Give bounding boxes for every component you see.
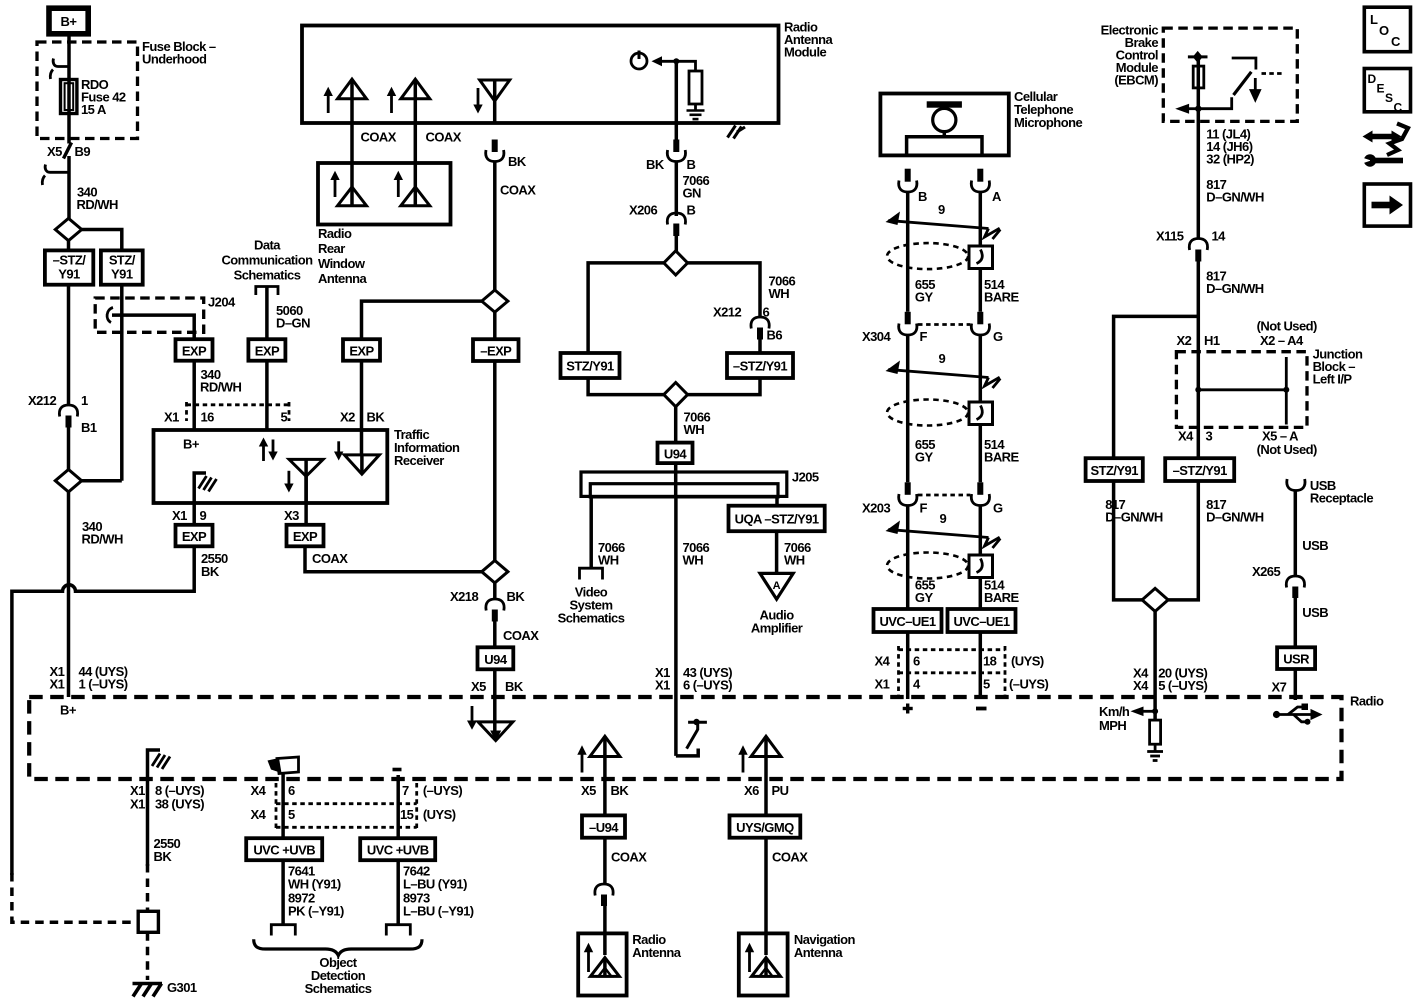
EBCM wire vertical [1197,57,1201,239]
svg-text:PK (–Y91): PK (–Y91) [288,904,344,919]
antenna symbol module 1 [324,79,367,113]
wire 5060 D-GN [265,287,269,340]
svg-text:Y91: Y91 [58,267,80,282]
wire to UYS/GMQ [764,779,768,815]
svg-text:(–UYS): (–UYS) [423,783,463,798]
antenna glyph radio antenna [584,943,620,977]
wire branch right from S1 [82,230,122,251]
splice diamond coax tap 2 [482,561,508,583]
svg-text:B+: B+ [61,14,78,29]
svg-text:U94: U94 [484,652,508,667]
svg-text:B6: B6 [767,328,783,343]
svg-text:WH: WH [684,422,705,437]
svg-text:9: 9 [940,511,947,526]
icon route wrench [1361,124,1409,167]
svg-text:Antenna: Antenna [794,945,843,960]
RPO box STZ/Y91 [101,250,143,284]
wire J204 to EXP [112,315,194,339]
svg-text:BK: BK [507,589,526,604]
resistor module [689,71,702,104]
loop rejoin right [688,378,760,395]
wire camera feed left [281,774,285,839]
svg-text:D–GN/WH: D–GN/WH [1206,190,1264,205]
svg-text:–U94: –U94 [589,820,619,835]
power symbol in module [631,51,647,70]
RPO box -STZ/Y91 loop [727,353,793,378]
label 5060 D-GN [276,303,310,331]
RPO box EXP 4 [176,525,213,547]
wire U94 into radio [493,669,497,740]
RPO box -STZ/Y91 [45,250,93,284]
svg-text:G301: G301 [167,980,197,995]
svg-text:L–BU (Y91): L–BU (Y91) [403,877,467,892]
svg-text:C: C [1394,101,1403,115]
label 817 D-GN/WH [1206,177,1264,205]
wire EXP3 to traffic box [360,361,364,455]
svg-text:Amplifier: Amplifier [751,621,803,636]
mic inline connector A [971,169,989,192]
svg-text:7: 7 [402,783,409,798]
labels 817 under boxes [1105,497,1264,525]
svg-text:X1: X1 [164,410,179,425]
svg-text:PU: PU [772,783,789,798]
splice diamond S2 [55,470,81,492]
RPO box EXP 1 [176,339,213,361]
svg-text:UVC +UVB: UVC +UVB [367,843,429,858]
wire USR to radio [1294,669,1298,700]
wire S5 to radio [1153,611,1157,720]
EBCM junction dot [1195,106,1201,112]
label 7066 WH [684,410,711,438]
svg-text:COAX: COAX [361,130,397,145]
svg-text:STZ/: STZ/ [109,253,136,268]
splice diamond coax tap [482,290,508,312]
svg-text:Radio: Radio [318,226,352,241]
node minus object [393,768,402,772]
connector X304 G [971,312,989,335]
svg-text:RD/WH: RD/WH [77,197,118,212]
svg-text:6 (–UYS): 6 (–UYS) [683,678,732,693]
antenna symbol module 2 [387,79,430,113]
wire B to radio [906,632,910,699]
fuse RDO 42 [61,80,77,114]
svg-text:D: D [1368,72,1377,86]
svg-text:X115: X115 [1156,229,1184,244]
splice diamond S4 [664,383,688,407]
label radio rear window antenna [318,226,367,286]
label EBCM [1101,23,1159,88]
svg-text:BK: BK [154,849,173,864]
svg-text:UQA –STZ/Y91: UQA –STZ/Y91 [735,512,819,527]
svg-text:Data: Data [254,238,281,253]
antenna select switch in radio [676,719,707,756]
antenna symbol traffic 2 [334,441,379,474]
label object detection schematics [305,955,372,996]
svg-text:EXP: EXP [349,344,374,359]
twisted pair symbol 2 [886,351,1001,388]
wire coax 1 module to glass [350,79,354,206]
antenna symbol traffic 1 [284,459,323,503]
svg-text:D–GN/WH: D–GN/WH [1206,510,1264,525]
svg-text:STZ/Y91: STZ/Y91 [1090,463,1138,478]
svg-text:X3: X3 [284,508,299,523]
wire B+ vertical [67,34,71,144]
svg-text:15: 15 [400,807,414,822]
svg-text:X4: X4 [251,807,267,822]
wire STZ rejoin at S2 [82,479,122,483]
twisted pair symbol 3 [886,511,1001,548]
svg-text:Underhood: Underhood [142,52,207,67]
labels 655 GY 514 BARE s1 [915,277,1020,305]
svg-text:S: S [1385,91,1393,105]
svg-text:USB: USB [1302,605,1328,620]
svg-text:WH: WH [769,286,790,301]
label 2550 BK lower [154,836,181,864]
svg-text:Antenna: Antenna [632,945,681,960]
connector rows X4 object [276,783,417,830]
radio antenna box [578,933,626,995]
label BK COAX [500,154,536,198]
kmh mph output arrow [1099,704,1158,733]
loop left branch [588,263,664,353]
svg-text:Schematics: Schematics [558,611,625,626]
splice diamond S5 [1142,588,1168,611]
svg-text:Receiver: Receiver [394,453,444,468]
labels X5 BK bottom [581,783,629,798]
wire B segment 2 [906,335,910,482]
radio dashed box [29,697,1341,779]
RPO box -U94 [582,815,625,837]
labels 655 GY 514 BARE s3 [915,578,1020,606]
svg-text:6: 6 [913,654,920,669]
svg-text:X1: X1 [655,678,670,693]
wire UYS/GMQ to nav box [764,838,768,955]
wire EXP2 to traffic box [265,361,269,430]
svg-text:EXP: EXP [255,344,280,359]
svg-text:B+: B+ [183,437,200,452]
labels X4 3 X5-A [1178,429,1317,458]
shield ellipse 3 [887,553,968,579]
wire 2550 BK down and left with hop [12,546,194,875]
svg-text:G: G [993,501,1003,516]
cellular telephone microphone box [880,94,1008,156]
labels X4 20 5 [1133,666,1207,694]
microphone symbol [907,101,982,155]
wire B segment 3 [906,506,910,610]
svg-text:Left I/P: Left I/P [1313,372,1353,387]
RPO box EXP 2 [248,339,285,361]
label 2550 BK [201,551,228,579]
svg-text:14: 14 [1212,229,1227,244]
svg-text:16: 16 [201,410,215,425]
svg-text:O: O [1379,23,1389,38]
navigation antenna feed glyph [738,736,781,779]
wire J205 left drop [589,497,593,568]
svg-text:Antenna: Antenna [318,271,367,286]
svg-text:X2 – A4: X2 – A4 [1260,333,1304,348]
svg-text:F: F [920,501,928,516]
label traffic information receiver [394,427,460,468]
svg-text:GN: GN [683,186,702,201]
labels BK B 7066 GN [646,157,710,201]
wire traffic to EXP4 [192,503,196,525]
svg-text:EXP: EXP [182,344,207,359]
svg-text:X203: X203 [862,501,890,516]
svg-text:C: C [1391,34,1401,49]
svg-text:F: F [920,329,928,344]
svg-text:BK: BK [508,154,527,169]
label 7066 WH right branch [769,274,796,302]
labels X1 43 6 [655,665,732,693]
wire to -U94 [603,779,607,815]
svg-text:1 (–UYS): 1 (–UYS) [79,677,128,692]
junction bus J205 [581,470,819,497]
wire J205 middle drop [674,497,678,756]
svg-text:A: A [773,580,781,592]
wire UQA to amp [775,531,779,573]
labels X4 6 7 [251,783,463,798]
svg-text:X265: X265 [1252,564,1280,579]
junction block internal link [1195,357,1289,425]
USB trident symbol [1273,704,1323,725]
wire power branch to resistor [676,61,695,71]
labels X203 F G [862,501,1003,516]
svg-text:X212: X212 [28,393,56,408]
svg-text:B1: B1 [81,420,97,435]
shield ellipse 1 [887,243,968,269]
svg-text:(UYS): (UYS) [1011,654,1044,669]
shield drain box 3 [969,555,993,578]
RPO box UVC-UE1 left [874,609,942,632]
wire X212 to -STZ box [758,340,762,354]
svg-text:Communication: Communication [221,253,313,268]
svg-text:X5: X5 [47,144,62,159]
svg-text:5: 5 [983,677,990,692]
wire below X212 [67,428,71,470]
RPO box UVC+UVB left [246,838,322,860]
svg-text:J205: J205 [792,470,819,485]
off-page bracket object left [271,925,295,936]
svg-text:Module: Module [784,45,827,60]
node minus [976,707,987,711]
svg-text:X4: X4 [1133,678,1149,693]
RPO box -STZ/Y91 right [1165,458,1234,481]
svg-text:X1: X1 [875,677,890,692]
RPO box U94 [658,443,693,464]
dashed ground run far left [12,873,135,922]
dashed connector link X203 [918,494,970,497]
label 340 RD/WH at EXP1 [200,367,241,395]
label fuse block [142,39,216,67]
label 340 RD/WH [77,185,118,213]
svg-text:(Not Used): (Not Used) [1257,319,1317,334]
brace object detection [254,939,422,955]
svg-text:38 (UYS): 38 (UYS) [155,797,204,812]
junction dot power [673,58,679,64]
wire tap to -EXP [493,312,497,339]
svg-text:BK: BK [611,783,630,798]
label 340 RD/WH lower [82,519,123,547]
shield ellipse 2 [887,400,968,426]
labels X1 4 5 -UYS [875,677,1049,692]
wire X206 to splice [675,236,679,251]
mic inline connector B [899,169,917,192]
svg-text:X212: X212 [713,305,741,320]
label video system schematics [558,585,625,626]
svg-text:X6: X6 [744,783,759,798]
wire -STZ down right [1168,481,1198,600]
antenna symbol module 3 down [473,80,509,123]
wire mic A segment [979,192,983,312]
svg-text:6: 6 [288,783,295,798]
labels 11 14 32 [1206,127,1254,167]
svg-text:X1: X1 [130,797,145,812]
svg-text:X1: X1 [50,677,65,692]
connector X265 [1252,564,1305,598]
navigation antenna box [739,933,788,995]
label navigation antenna [794,932,856,960]
svg-text:X4: X4 [875,654,891,669]
svg-text:(Not Used): (Not Used) [1257,442,1317,457]
svg-text:BK: BK [367,410,386,425]
USB receptacle connector [1287,478,1374,506]
svg-text:X4: X4 [1178,429,1194,444]
svg-text:9: 9 [938,202,945,217]
svg-text:STZ/Y91: STZ/Y91 [566,359,614,374]
svg-text:9: 9 [939,351,946,366]
labels X4 5 15 [251,807,456,822]
svg-text:RD/WH: RD/WH [82,532,123,547]
icon arrow box [1364,184,1410,226]
svg-text:EXP: EXP [182,529,207,544]
svg-text:WH: WH [598,553,619,568]
wire to X206 [675,162,679,217]
connector X218 [450,589,525,622]
RPO box USR [1277,647,1315,669]
svg-text:Schematics: Schematics [234,268,301,283]
svg-text:WH (Y91): WH (Y91) [288,877,341,892]
wire left from S1 [67,241,71,251]
svg-text:WH: WH [683,553,704,568]
inline connector module BK [667,140,685,162]
svg-text:GY: GY [915,290,934,305]
resistor kmh [1150,720,1161,744]
svg-text:X1: X1 [172,508,187,523]
fuse block terminal hook top [50,59,69,80]
wire coax down to tap [493,162,497,291]
svg-text:BARE: BARE [984,590,1020,605]
svg-text:Microphone: Microphone [1014,115,1082,130]
RPO box STZ/Y91 right [1086,458,1143,481]
svg-text:X4: X4 [251,783,267,798]
svg-text:UVC–UE1: UVC–UE1 [953,614,1009,629]
svg-text:Window: Window [318,256,366,271]
svg-text:Y91: Y91 [111,267,133,282]
svg-text:5 (–UYS): 5 (–UYS) [1158,678,1207,693]
svg-text:Receptacle: Receptacle [1310,491,1373,506]
J204 terminal hook [107,308,113,323]
wire S4 to U94 [674,407,678,443]
RPO box UVC+UVB right [360,838,435,860]
svg-text:B: B [918,189,927,204]
audio amplifier triangle [760,573,793,599]
svg-text:UVC +UVB: UVC +UVB [253,843,315,858]
shield drain box 2 [969,402,993,425]
svg-text:Radio: Radio [1350,694,1384,709]
svg-text:H1: H1 [1204,333,1220,348]
svg-text:X5: X5 [471,679,486,694]
ground symbol inside traffic box [194,473,216,503]
ground kmh [1147,744,1163,760]
svg-text:U94: U94 [664,447,688,462]
radio antenna module box [302,26,779,124]
svg-text:GY: GY [915,450,934,465]
labels X1 9 X3 [172,508,299,523]
radio coax input antenna [467,706,513,742]
label audio amplifier [751,608,803,636]
svg-text:Schematics: Schematics [305,981,372,996]
label data communication schematics [221,238,313,283]
svg-text:BARE: BARE [984,290,1020,305]
wire splice to G301 [146,932,150,980]
fuse block underhood dashed box [37,42,138,139]
RPO box UYS/GMQ [730,815,801,837]
connector rows X4 X1 dashed [899,646,1006,697]
svg-text:X5: X5 [581,783,596,798]
svg-text:15 A: 15 A [81,102,107,117]
wire -EXP to lower tap [493,361,497,561]
junction block left IP dashed box [1176,352,1307,428]
svg-text:COAX: COAX [312,551,348,566]
splice diamond S3 [664,251,688,275]
svg-text:X2: X2 [340,410,355,425]
junction J204 dashed box [95,298,204,332]
svg-text:–STZ/Y91: –STZ/Y91 [1173,463,1227,478]
ground G301 [133,980,197,997]
labels X4 6 18 UYS [875,654,1044,669]
wire -STZ down to X212 [67,285,71,406]
labels X1 8 38 [130,783,204,812]
RPO box -EXP [473,339,519,361]
wire UVC right down [396,860,400,924]
ground wire from radio to splice [146,779,150,866]
svg-text:BK: BK [505,679,524,694]
svg-text:X2: X2 [1177,333,1192,348]
battery feed B+ [49,8,88,34]
radio rear window antenna box [318,163,451,225]
loop rejoin left [588,378,664,395]
svg-text:–STZ/Y91: –STZ/Y91 [733,359,787,374]
wire X115 down [1197,262,1201,459]
splice box S301 [138,911,158,932]
wire A segment 3 [979,506,983,610]
labels X304 F G [862,329,1003,344]
RPO box UQA -STZ/Y91 [729,506,825,532]
label radio antenna [632,932,681,960]
wire X218 to U94 [493,583,497,599]
svg-text:18: 18 [983,654,997,669]
ground under resistor [687,104,705,119]
svg-text:COAX: COAX [426,130,462,145]
wire BK from module [675,61,679,140]
labels 655 GY 514 BARE s2 [915,437,1020,465]
RPO box U94 coax [478,647,514,669]
labels 7642 L-BU 8973 [403,864,474,919]
wire A segment 2 [979,335,983,482]
svg-text:RD/WH: RD/WH [200,380,241,395]
RPO box UVC-UE1 right [948,609,1016,632]
wire -U94 down [603,838,607,885]
